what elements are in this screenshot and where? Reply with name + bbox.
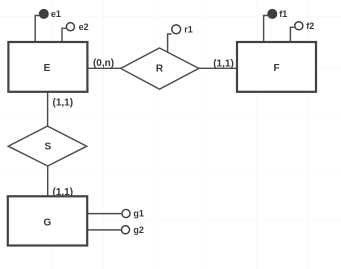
wire E to S xyxy=(47,92,49,126)
attribute r1 xyxy=(172,25,181,34)
relationship S xyxy=(8,126,87,166)
wire S to G xyxy=(47,166,49,196)
svg-text:F: F xyxy=(273,63,279,74)
svg-text:(1,1): (1,1) xyxy=(213,58,234,69)
svg-text:e1: e1 xyxy=(51,9,61,19)
entity G xyxy=(8,196,87,245)
attribute f1 (key) xyxy=(268,10,277,19)
entity F xyxy=(237,42,316,92)
attribute g2 xyxy=(121,226,129,234)
svg-text:e2: e2 xyxy=(79,22,89,32)
wire E to R xyxy=(88,67,122,69)
relationship R xyxy=(121,48,199,89)
svg-text:f2: f2 xyxy=(306,21,314,31)
attribute f2 wire xyxy=(290,27,294,42)
attribute e2 xyxy=(66,23,74,31)
svg-text:g1: g1 xyxy=(133,209,144,219)
svg-text:(0,n): (0,n) xyxy=(93,58,114,69)
svg-text:S: S xyxy=(44,142,51,153)
attribute g1 wire xyxy=(87,213,121,215)
attribute f2 xyxy=(295,22,303,30)
svg-text:f1: f1 xyxy=(279,9,287,19)
svg-text:E: E xyxy=(44,63,51,74)
svg-text:(1,1): (1,1) xyxy=(53,98,74,109)
svg-text:R: R xyxy=(156,64,164,75)
attribute e2 wire xyxy=(62,28,66,42)
attribute g2 wire xyxy=(87,229,121,231)
attribute f1 wire xyxy=(264,16,268,43)
svg-text:G: G xyxy=(44,217,52,228)
attribute e1 (key) xyxy=(40,10,49,19)
attribute e1 wire xyxy=(35,16,39,43)
svg-text:r1: r1 xyxy=(184,24,193,34)
attribute g1 xyxy=(122,209,130,217)
svg-text:g2: g2 xyxy=(133,225,144,235)
attribute r1 wire xyxy=(168,34,172,52)
entity E xyxy=(8,42,87,92)
wire R to F xyxy=(199,67,237,69)
